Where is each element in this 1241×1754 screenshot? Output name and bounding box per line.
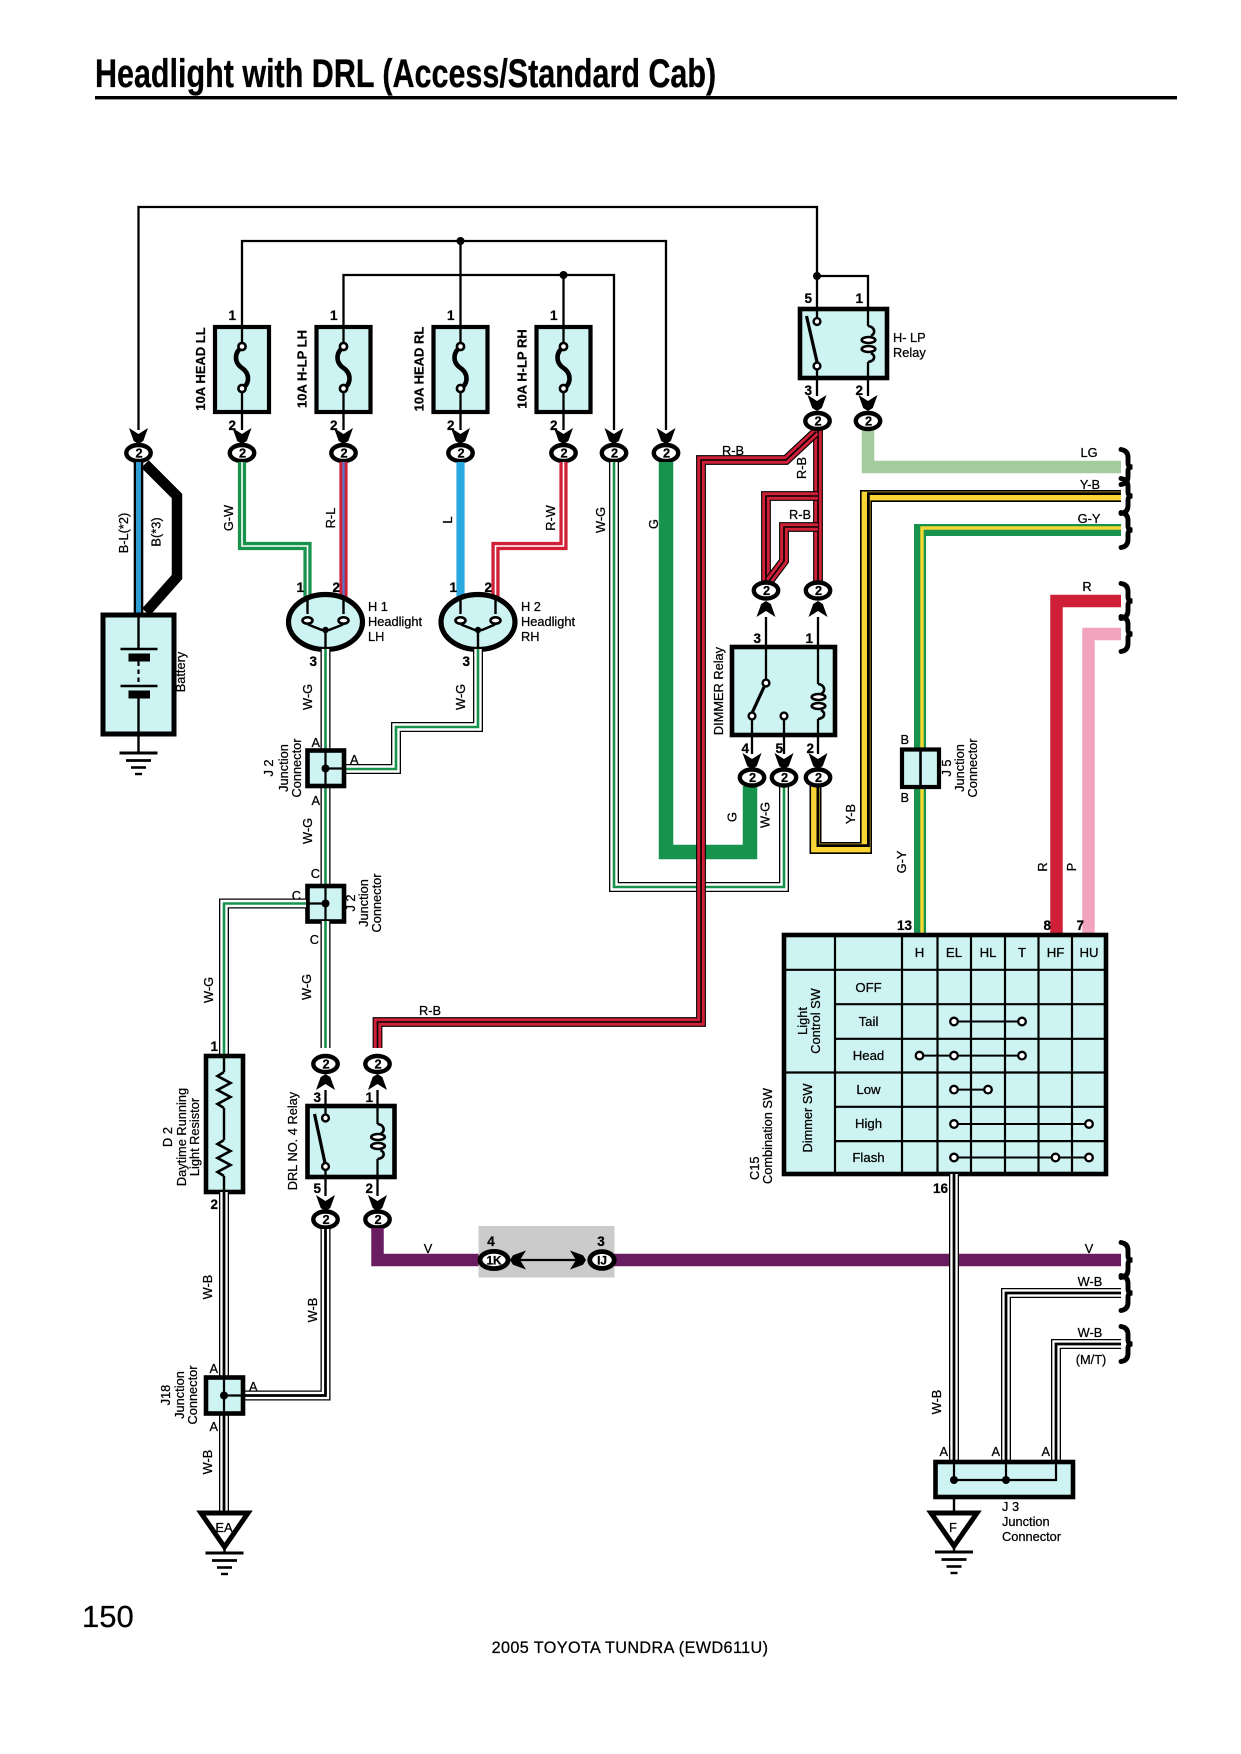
svg-text:1: 1 (805, 631, 813, 646)
wire G from fuse bus to dimmer relay pin4 (646, 462, 750, 852)
svg-text:13: 13 (897, 918, 913, 933)
svg-text:J 2: J 2 (261, 759, 276, 776)
connector oval 2 fuse2 (331, 445, 355, 461)
svg-text:5: 5 (313, 1181, 321, 1196)
svg-text:J 3: J 3 (1002, 1499, 1019, 1514)
svg-text:R-B: R-B (794, 457, 809, 479)
svg-text:2005 TOYOTA TUNDRA (EWD611U): 2005 TOYOTA TUNDRA (EWD611U) (492, 1639, 769, 1657)
brace stub Y-B (1121, 479, 1133, 514)
svg-text:Flash: Flash (852, 1150, 884, 1165)
junction connector J3 (936, 1444, 1074, 1544)
headlight H1 LH (289, 580, 423, 650)
svg-text:J18: J18 (158, 1385, 173, 1406)
wire R-B main vertical H-LP pin3 to dimmer pin1 (794, 430, 818, 582)
svg-text:150: 150 (82, 1599, 134, 1634)
wire W-B DRL pin5 to J18 (245, 1229, 326, 1396)
wire W-B D2 to J18 (200, 1192, 224, 1378)
connector arrow dimmer pin5 (775, 753, 794, 769)
wire L to H2 pin1 (440, 462, 461, 600)
svg-text:4: 4 (741, 741, 749, 756)
svg-text:7: 7 (1076, 918, 1084, 933)
junction connector J2 (C) (292, 866, 384, 947)
svg-text:G: G (725, 812, 740, 822)
svg-text:Connector: Connector (369, 873, 384, 933)
headlight H2 RH (441, 580, 576, 650)
switch contacts High row (950, 1120, 1093, 1128)
wire LG from H-LP relay pin2 (868, 430, 1121, 467)
svg-text:LG: LG (1080, 445, 1097, 460)
svg-text:Headlight with DRL (Access/Sta: Headlight with DRL (Access/Standard Cab) (95, 52, 716, 96)
svg-text:Y-B: Y-B (1080, 477, 1100, 492)
svg-text:A: A (350, 752, 359, 767)
svg-text:G: G (646, 519, 661, 529)
svg-text:W-G: W-G (201, 977, 216, 1003)
brace stub P (1121, 617, 1133, 652)
svg-text:1: 1 (365, 1090, 373, 1105)
title (95, 52, 1177, 99)
wire H-LP relay pin2 stub (867, 378, 869, 396)
connector oval 2 fuse3 (448, 445, 472, 461)
wire stubs from fuses to connectors (242, 412, 564, 430)
svg-text:Combination SW: Combination SW (760, 1087, 775, 1184)
svg-text:A: A (311, 735, 320, 750)
connector arrow dimmer pin1 (809, 601, 828, 617)
svg-text:Dimmer SW: Dimmer SW (800, 1083, 815, 1153)
brace stub W-B (1121, 1276, 1133, 1311)
svg-text:HU: HU (1079, 945, 1098, 960)
wire DRL pin2 stub (376, 1177, 378, 1196)
wire R-W to H2 pin2 (496, 462, 564, 600)
wire P from stub to combination SW pin7 (1064, 634, 1121, 937)
wire W-G from fuse bus to dimmer relay pin5 (593, 462, 784, 887)
svg-text:3: 3 (597, 1234, 605, 1249)
relay H-LP Relay (800, 291, 926, 398)
wire W-G between J2 connectors (300, 784, 326, 888)
svg-text:V: V (1085, 1241, 1094, 1256)
connector oval 2 DRL pin1 (365, 1056, 389, 1072)
connector arrow DRL pin1 (368, 1074, 387, 1090)
node: junction fuse bus 2 (457, 237, 465, 245)
svg-text:W-G: W-G (453, 684, 468, 710)
brace stub G-Y (1121, 513, 1133, 548)
connector oval 2 G feed (654, 445, 678, 461)
svg-text:Control SW: Control SW (808, 987, 823, 1053)
svg-text:W-G: W-G (593, 507, 608, 533)
svg-text:3: 3 (753, 631, 761, 646)
svg-text:D 2: D 2 (160, 1127, 175, 1147)
wire W-G J2(C) to DRL relay pin3 (299, 921, 326, 1048)
wire Y-B from stub to dimmer relay pin2 (816, 477, 1122, 848)
brace stub LG (1121, 450, 1133, 485)
svg-text:HF: HF (1047, 945, 1065, 960)
svg-text:W-B: W-B (1078, 1325, 1103, 1340)
svg-text:Low: Low (856, 1082, 881, 1097)
pin labels combination switch (897, 918, 1084, 1196)
svg-text:B(*3): B(*3) (149, 517, 164, 546)
connector oval 2 DRL pin3 (313, 1056, 337, 1072)
wire W-B combination SW pin16 to J3 (929, 1174, 954, 1463)
svg-text:5: 5 (804, 291, 812, 306)
svg-text:W-G: W-G (758, 802, 773, 828)
svg-text:DIMMER Relay: DIMMER Relay (711, 646, 726, 735)
relay DIMMER Relay (711, 631, 835, 756)
wire R from stub to combination SW pin8 (1035, 579, 1121, 937)
switch contacts Tail row (950, 1018, 1026, 1026)
svg-text:B-L(*2): B-L(*2) (116, 513, 131, 554)
svg-text:1: 1 (296, 580, 304, 595)
svg-text:EL: EL (946, 945, 962, 960)
svg-text:RH: RH (521, 629, 539, 644)
connector oval 2 dimmer pin4 (740, 770, 764, 786)
svg-text:H- LP: H- LP (893, 330, 926, 345)
wire: fuse bus 3 (344, 275, 615, 430)
svg-text:Tail: Tail (859, 1014, 879, 1029)
connector arrow fuse1 (233, 428, 252, 444)
connector oval 2 H-LP pin3 (805, 413, 829, 429)
svg-text:R-B: R-B (789, 507, 811, 522)
ground battery (120, 734, 158, 774)
svg-text:G-W: G-W (221, 504, 236, 531)
svg-text:R: R (1082, 579, 1091, 594)
svg-text:R-B: R-B (419, 1003, 441, 1018)
svg-text:3: 3 (462, 654, 470, 669)
svg-text:2: 2 (484, 580, 492, 595)
svg-text:A: A (209, 1419, 218, 1434)
svg-text:W-G: W-G (300, 818, 315, 844)
svg-text:Headlight: Headlight (368, 614, 423, 629)
svg-text:B: B (900, 732, 909, 747)
svg-text:W-B: W-B (200, 1275, 215, 1300)
svg-text:Connector: Connector (185, 1365, 200, 1425)
svg-text:Y-B: Y-B (843, 804, 858, 824)
svg-text:C: C (311, 866, 320, 881)
connector oval 2 fuse4 (551, 445, 575, 461)
connector arrow H-LP pin3 (808, 395, 827, 411)
connector oval 2 H-LP pin2 (856, 413, 880, 429)
resistor D2 Daytime Running Light Resistor (160, 1039, 243, 1212)
svg-text:H 2: H 2 (521, 599, 541, 614)
wire: fuse bus 2 (242, 241, 666, 430)
svg-text:R-W: R-W (543, 504, 558, 531)
svg-text:8: 8 (1043, 918, 1051, 933)
wire W-B (M/T) stub2 to J3 (1056, 1325, 1121, 1463)
svg-text:Battery: Battery (173, 651, 188, 692)
connector arrow W-G feed (605, 428, 624, 444)
fuse 10A HEAD RL (412, 308, 488, 433)
svg-text:1: 1 (447, 308, 455, 323)
svg-text:T: T (1018, 945, 1026, 960)
svg-text:1: 1 (228, 308, 236, 323)
svg-text:Connector: Connector (1002, 1529, 1062, 1544)
svg-text:H 1: H 1 (368, 599, 388, 614)
switch contacts Low row (950, 1086, 992, 1094)
wire G-Y from stub through J5 to combination SW pin13 (894, 511, 1121, 937)
svg-text:High: High (855, 1116, 882, 1131)
inline connector 1K-IJ (479, 1226, 615, 1278)
connector arrow fuse2 (334, 428, 353, 444)
ground F (931, 1513, 977, 1573)
svg-text:B: B (900, 790, 909, 805)
svg-text:A: A (939, 1444, 948, 1459)
svg-text:Light Resistor: Light Resistor (187, 1097, 202, 1176)
brace stub W-B M/T (1121, 1327, 1133, 1362)
svg-text:(M/T): (M/T) (1076, 1352, 1107, 1367)
svg-text:R-B: R-B (722, 443, 744, 458)
fuse 10A H-LP RH (515, 308, 591, 433)
wire V from DRL pin2 to stub (378, 1228, 1122, 1260)
svg-text:DRL NO. 4 Relay: DRL NO. 4 Relay (285, 1091, 300, 1190)
svg-text:R: R (1035, 862, 1050, 871)
wire W-B stub1 to J3 (1006, 1274, 1121, 1463)
relay DRL NO. 4 Relay (285, 1090, 395, 1196)
wire DRL pin3 stub (324, 1090, 326, 1106)
switch contacts Flash row (950, 1154, 1093, 1162)
svg-text:1: 1 (855, 291, 863, 306)
svg-text:H: H (915, 945, 925, 960)
svg-text:Connector: Connector (965, 738, 980, 798)
connector oval 2 dimmer pin3 (754, 583, 778, 599)
svg-text:W-B: W-B (200, 1450, 215, 1475)
connector arrow G feed (657, 428, 676, 444)
wire J3 to ground F (953, 1497, 955, 1513)
switch contacts Head row (916, 1052, 1026, 1060)
wire dimmer pin1 stub (817, 617, 819, 647)
svg-text:5: 5 (775, 741, 783, 756)
connector arrow fuse3 (451, 428, 470, 444)
wire B-L(*2) battery positive (116, 462, 139, 618)
node: junction on relay feed (813, 272, 821, 280)
svg-text:2: 2 (806, 741, 814, 756)
svg-text:G-Y: G-Y (894, 850, 909, 873)
svg-text:2: 2 (332, 580, 340, 595)
connector arrow H-LP pin2 (859, 395, 878, 411)
wire R-B branch to DRL relay pin1 (378, 432, 817, 1048)
wire dimmer pin2 stub (817, 735, 819, 754)
ground EA (201, 1513, 248, 1574)
svg-text:A: A (249, 1379, 258, 1394)
wire W-G J2(C) to D2 resistor (201, 904, 306, 1058)
svg-text:Connector: Connector (289, 738, 304, 798)
connector oval 2 dimmer pin5 (772, 770, 796, 786)
svg-text:A: A (1041, 1444, 1050, 1459)
svg-text:Head: Head (853, 1048, 885, 1063)
wire B(*3) battery (145, 464, 177, 612)
fuse 10A HEAD LL (193, 308, 269, 433)
junction connector J5 (900, 732, 980, 805)
junction connector J2 (A) (261, 735, 359, 808)
svg-text:1: 1 (449, 580, 457, 595)
svg-text:W-G: W-G (300, 684, 315, 710)
svg-text:10A HEAD RL: 10A HEAD RL (412, 327, 427, 412)
svg-text:Relay: Relay (893, 345, 926, 360)
wire dimmer pin4 stub (751, 735, 753, 754)
wire R-L to H1 pin2 (323, 462, 344, 600)
wire H-LP relay pin3 stub (816, 378, 818, 396)
connector oval 2 fuse1 (230, 445, 254, 461)
junction connector J18 (158, 1361, 258, 1434)
connector arrow dimmer pin2 (809, 753, 828, 769)
connector arrow dimmer pin4 (743, 753, 762, 769)
connector arrow DRL pin5 (316, 1195, 335, 1211)
svg-text:10A H-LP RH: 10A H-LP RH (515, 329, 530, 408)
svg-text:10A HEAD LL: 10A HEAD LL (193, 327, 208, 410)
brace stub R (1121, 584, 1133, 619)
wire R-B inner link dimmer pin1 to pin3 (769, 507, 818, 581)
svg-text:4: 4 (487, 1234, 495, 1249)
fuse 10A H-LP LH (295, 308, 371, 433)
connector oval 2 dimmer pin2 (806, 770, 830, 786)
svg-text:1K: 1K (486, 1253, 502, 1267)
wire R-B link to dimmer pin3 (766, 496, 818, 582)
svg-text:3: 3 (309, 654, 317, 669)
svg-text:HL: HL (980, 945, 997, 960)
wire W-B J18 to ground EA (200, 1413, 224, 1513)
wire DRL pin5 stub (324, 1177, 326, 1196)
svg-text:W-B: W-B (929, 1390, 944, 1415)
connector arrow battery (129, 428, 148, 444)
wire W-G H1 pin3 to J2 (300, 649, 326, 752)
connector oval 2 battery (126, 445, 150, 461)
battery (103, 615, 188, 734)
svg-text:A: A (991, 1444, 1000, 1459)
svg-text:W-B: W-B (1078, 1274, 1103, 1289)
svg-text:W-G: W-G (299, 974, 314, 1000)
svg-text:IJ: IJ (597, 1253, 607, 1267)
svg-text:Junction: Junction (1002, 1514, 1050, 1529)
svg-text:1: 1 (330, 308, 338, 323)
svg-text:W-B: W-B (305, 1298, 320, 1323)
svg-text:1: 1 (550, 308, 558, 323)
wire G-W to H1 pin1 (221, 462, 308, 600)
connector arrow fuse4 (554, 428, 573, 444)
node: junction fuse bus 3 (560, 271, 568, 279)
svg-text:2: 2 (210, 1197, 218, 1212)
svg-text:R-L: R-L (323, 508, 338, 529)
combination switch C15 (747, 935, 1106, 1184)
svg-text:3: 3 (313, 1090, 321, 1105)
connector arrow DRL pin2 (368, 1195, 387, 1211)
svg-text:LH: LH (368, 629, 384, 644)
svg-text:10A H-LP LH: 10A H-LP LH (295, 330, 310, 408)
connector oval 2 dimmer pin1 (806, 583, 830, 599)
wire W-G H2 pin3 to J2 (346, 649, 478, 769)
svg-text:A: A (311, 793, 320, 808)
svg-text:2: 2 (365, 1181, 373, 1196)
connector oval 2 W-G feed (602, 445, 626, 461)
connector arrow DRL pin3 (316, 1074, 335, 1090)
svg-text:F: F (949, 1520, 957, 1535)
wire dimmer pin3 stub (765, 617, 767, 647)
svg-text:P: P (1064, 863, 1079, 872)
wire DRL pin1 stub (376, 1090, 378, 1106)
wire: battery feed bus to H-LP relay (139, 207, 869, 430)
svg-text:G-Y: G-Y (1078, 511, 1101, 526)
connector oval 2 DRL pin2 (365, 1212, 389, 1228)
svg-text:EA: EA (215, 1520, 233, 1535)
svg-text:1: 1 (210, 1039, 218, 1054)
connector oval 2 DRL pin5 (313, 1212, 337, 1228)
svg-text:V: V (424, 1241, 433, 1256)
svg-text:OFF: OFF (855, 980, 881, 995)
wire dimmer pin5 stub (783, 735, 785, 754)
svg-text:L: L (440, 516, 455, 523)
svg-text:A: A (209, 1361, 218, 1376)
brace stub V (1121, 1243, 1133, 1278)
svg-text:Headlight: Headlight (521, 614, 576, 629)
svg-text:C: C (310, 932, 319, 947)
connector arrow dimmer pin3 (757, 601, 776, 617)
svg-text:16: 16 (933, 1181, 949, 1196)
